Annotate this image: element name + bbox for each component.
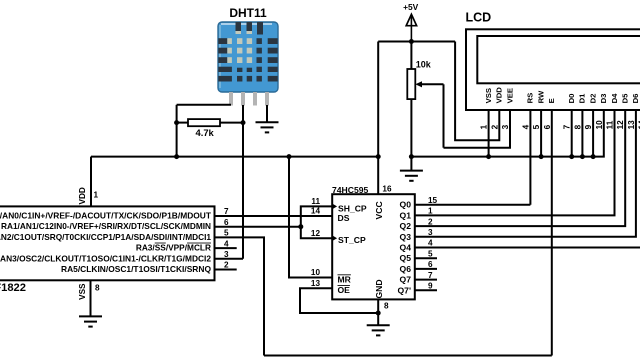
svg-text:1: 1 [480,124,489,129]
wire LCD pin6 E down [551,110,553,356]
wire +5V rail to PIC VDD [91,156,378,158]
svg-text:VEE: VEE [505,88,514,103]
svg-text:10k: 10k [416,60,432,70]
svg-text:Q5: Q5 [400,253,412,263]
node D2/ground rail junction [591,154,596,159]
wire OE to ground [300,288,378,313]
wire LCD pin8 D1 to ground rail [581,110,583,157]
wire PIC pin3 RA4 [215,258,244,260]
wire E bottom run to PIC RA2 [264,355,552,357]
resistor R1 4.7k [177,119,243,138]
svg-text:D6: D6 [631,94,640,104]
pot wiper arrow [421,83,444,85]
svg-text:5: 5 [532,124,541,129]
svg-text:3: 3 [501,124,510,129]
svg-text:RA2/AN2/C1OUT/SRQ/T0CKI/CCP1/P: RA2/AN2/C1OUT/SRQ/T0CKI/CCP1/P1A/SDA/SDI… [0,232,211,242]
svg-text:D5: D5 [621,93,630,104]
DHT11 pin 2 leg [241,92,245,106]
svg-text:2: 2 [224,261,229,270]
top slots [236,22,242,31]
svg-text:GND: GND [374,279,384,298]
PIC right pin numbers [224,207,229,270]
wire PIC pin2 stub [215,269,237,271]
svg-text:MR: MR [338,274,352,284]
svg-text:6: 6 [428,260,433,269]
svg-text:LCD: LCD [466,11,492,25]
power +5V symbol [403,2,419,42]
microcontroller U1 PIC12F1822 [0,187,215,300]
node D0/ground rail junction [569,154,574,159]
svg-text:SH_CP: SH_CP [338,203,367,213]
wire 595 VCC line [377,42,379,195]
node pot bottom / ground rail [409,154,414,159]
wire Q4 to LCD D7 (off canvas) [415,247,640,249]
wire PIC VSS pin 8 [90,280,92,316]
svg-text:VSS: VSS [78,283,87,300]
node junction resistor right / DHT data [241,120,246,125]
wire LCD pin9 D2 to ground rail [592,110,594,157]
svg-text:6: 6 [224,218,229,227]
vent row 3 [218,57,277,63]
svg-text:RA4/AN3/OSC2/CLKOUT/T1OSO/C1IN: RA4/AN3/OSC2/CLKOUT/T1OSO/C1IN1-/CLKR/T1… [0,253,211,263]
svg-text:4: 4 [428,239,433,248]
svg-text:8: 8 [573,124,582,129]
svg-text:7: 7 [563,124,572,129]
svg-text:13: 13 [627,120,636,130]
svg-text:9: 9 [428,282,433,291]
wire Q5 stub [415,257,437,259]
svg-text:VDD: VDD [495,87,504,104]
wire Q7 stub [415,279,437,281]
svg-text:Q3: Q3 [400,232,412,242]
node +5V junction [409,39,414,44]
wire Q0 to RS [415,204,531,206]
svg-text:RA0/AN0/C1IN+/VREF-/DACOUT/TX/: RA0/AN0/C1IN+/VREF-/DACOUT/TX/CK/SDO/P1B… [0,211,211,221]
ground under potentiometer [400,157,423,181]
svg-text:2: 2 [490,124,499,129]
svg-text:5: 5 [224,229,229,238]
node VCC / +5V rail junction [376,154,381,159]
wire MR drop from +5V rail [289,157,332,278]
svg-text:12: 12 [616,120,625,130]
svg-text:RA1/AN1/C12IN0-/VREF+/SRI/RX/D: RA1/AN1/C12IN0-/VREF+/SRI/RX/DT/SCL/SCK/… [1,221,211,231]
wire DHT data vertical to PIC RA4 [242,105,244,259]
svg-text:13: 13 [311,279,321,288]
node OE/GND junction [376,311,381,316]
svg-text:1: 1 [94,191,99,200]
wire LCD pin1 VSS to ground rail [488,110,490,157]
wire Q1 to LCD D4 [415,110,615,215]
svg-text:Q1: Q1 [400,210,412,220]
svg-text:1: 1 [428,207,433,216]
svg-text:7: 7 [224,207,229,216]
node VSS/ground rail junction [486,154,491,159]
clock arrow SH_CP [332,204,337,210]
svg-text:3: 3 [224,250,229,259]
svg-text:16: 16 [382,184,392,193]
svg-text:ST_CP: ST_CP [338,235,366,245]
svg-text:Q0: Q0 [400,200,412,210]
svg-text:D2: D2 [588,94,597,104]
svg-text:D4: D4 [610,93,619,104]
LCD pin number labels [480,120,640,130]
node rail / DHT riser junction [174,154,179,159]
shift register U2 74HC595 [332,185,415,300]
wire Q7' stub [415,289,437,291]
clock arrow ST_CP [332,235,337,241]
ground under 74HC595 [367,325,390,335]
node MR rail junction [287,154,292,159]
svg-text:4: 4 [224,239,229,248]
wire PIC pin6 RA1 to clock junction [215,226,301,228]
svg-text:Q2: Q2 [400,221,412,231]
wire PIC VDD pin 1 [90,157,92,207]
svg-text:E: E [547,98,556,103]
wire LCD pin7 D0 to ground rail [571,110,573,157]
wire clock tie SH_CP/ST_CP [301,206,332,238]
wire Q6 stub [415,268,437,270]
pin number labels 74HC595 right [428,196,438,291]
wire PIC pin4 stub [215,247,237,249]
wire LCD VDD feed [455,42,499,141]
svg-text:8: 8 [384,301,389,310]
vent row 5 [218,76,277,82]
ground under DHT11 pin 4 [256,105,279,132]
wire Q2 to LCD D5 [415,110,625,226]
wire +5V top rail [378,41,455,43]
svg-text:Q7': Q7' [397,285,411,295]
svg-text:DHT11: DHT11 [229,6,267,20]
wire LCD VEE feed from wiper [444,110,511,148]
svg-text:VDD: VDD [78,187,87,204]
svg-text:8: 8 [95,283,100,292]
svg-text:4: 4 [521,124,530,129]
svg-text:15: 15 [428,196,438,205]
DHT11 pin 1 leg [229,92,233,106]
svg-text:Q4: Q4 [400,243,412,253]
svg-text:RA5/CLKIN/OSC1/T1OSI/T1CKI/SRN: RA5/CLKIN/OSC1/T1OSI/T1CKI/SRNQ [61,264,212,274]
wire Q3 to LCD D6 [415,110,636,237]
svg-text:RA3/SS/VPP/MCLR: RA3/SS/VPP/MCLR [136,243,211,253]
svg-text:12: 12 [311,229,321,238]
svg-text:2: 2 [428,217,433,226]
svg-text:11: 11 [311,197,320,206]
potentiometer RV1 10k [407,42,443,157]
vent row 4 [218,67,277,72]
svg-text:DS: DS [338,213,350,223]
DHT11 pin 4 leg [265,92,269,106]
wire ground rail under LCD [411,110,603,157]
svg-text:D0: D0 [567,94,576,104]
vent row 1 [218,38,277,44]
wire LCD pin5 RW to ground rail [540,110,542,157]
LCD pin name labels [484,87,640,104]
svg-text:7: 7 [428,271,433,280]
vent row 2 [218,48,277,54]
wire PIC pin7 RA0 to DS [215,215,333,217]
svg-text:RW: RW [536,90,545,103]
svg-text:10: 10 [311,268,321,277]
node junction resistor left [174,120,179,125]
svg-text:5: 5 [428,249,433,258]
svg-text:OE: OE [338,285,351,295]
LCD display LCD1 [466,11,640,111]
svg-text:VSS: VSS [484,88,493,103]
svg-text:14: 14 [311,207,321,216]
svg-text:4.7k: 4.7k [196,127,215,138]
node D1/ground rail junction [580,154,585,159]
svg-text:Q7: Q7 [400,275,412,285]
svg-text:PIC12F1822: PIC12F1822 [0,282,26,294]
svg-text:3: 3 [428,228,433,237]
node RW/ground rail junction [539,154,544,159]
wire PIC pin5 RA2 [215,237,265,355]
svg-text:9: 9 [584,124,593,129]
svg-text:VCC: VCC [374,201,384,219]
svg-text:RS: RS [526,93,535,104]
DHT11 pin 3 leg [253,92,257,106]
node clock junction [298,224,303,229]
svg-text:10: 10 [595,120,604,130]
svg-text:Q6: Q6 [400,264,412,274]
wire LCD pin4 RS down to Q0 [529,110,531,205]
ground under PIC VSS [79,316,102,326]
svg-text:D1: D1 [578,93,587,104]
wire VCC riser (DHT VCC down to +5V rail) [176,105,178,157]
pin number labels 74HC595 left [311,197,321,288]
wire DHT11 pin1 to VCC riser [177,104,231,106]
svg-text:6: 6 [543,124,552,129]
sensor DHT11 [218,6,278,106]
wire 595 GND pin 8 [377,299,379,324]
svg-text:+5V: +5V [403,2,419,12]
svg-text:D3: D3 [599,94,608,104]
svg-text:11: 11 [606,120,615,129]
